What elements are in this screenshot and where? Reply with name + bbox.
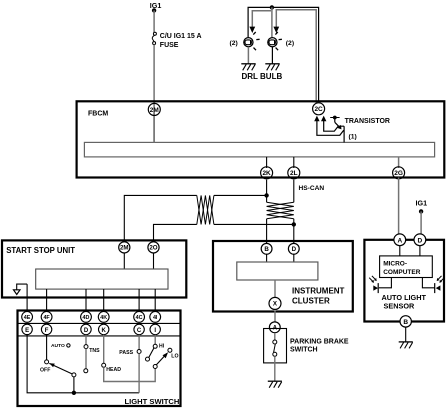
terminal 4F <box>41 312 52 323</box>
svg-text:IG1: IG1 <box>150 1 162 10</box>
ground (parking brake switch) <box>268 381 282 388</box>
contact parking brake lower <box>273 352 277 356</box>
wire unit block to 4C <box>138 289 140 313</box>
svg-text:(2): (2) <box>230 40 238 47</box>
svg-text:LIGHT SWITCH: LIGHT SWITCH <box>125 397 180 406</box>
svg-text:2G: 2G <box>394 170 403 177</box>
svg-text:2C: 2C <box>314 106 323 113</box>
wire bus to 2L <box>293 157 295 168</box>
svg-text:2K: 2K <box>262 170 271 177</box>
contact LO <box>168 348 172 352</box>
transistor (1) inside FBCM <box>314 116 390 141</box>
switch blade HI <box>149 348 154 358</box>
svg-text:HI: HI <box>159 343 165 349</box>
wire 2K down (CAN-H vertical) <box>266 180 268 203</box>
label AUTO + contact <box>51 343 70 349</box>
module START STOP UNIT box <box>2 240 186 297</box>
svg-text:IG1: IG1 <box>416 199 428 208</box>
terminal 2G (FBCM) <box>393 167 405 179</box>
current-flow arrow path to left bulb <box>249 11 271 33</box>
wire 2G to auto light sensor A <box>398 178 400 237</box>
svg-text:2L: 2L <box>290 170 298 177</box>
svg-text:D: D <box>84 328 89 334</box>
twisted pair (vertical, HS-CAN) <box>267 202 294 219</box>
wire pivot to common junction <box>73 377 75 393</box>
svg-text:SENSOR: SENSOR <box>384 302 416 311</box>
wire right bulb to ground <box>271 47 273 64</box>
terminal 2M (start stop unit) <box>119 242 130 253</box>
pin E <box>22 324 32 334</box>
wire B to ground <box>405 327 407 342</box>
wire pin I to HI contact <box>154 335 156 345</box>
ground (auto light sensor) <box>399 342 413 349</box>
wire twist to CAN-H junction <box>214 194 267 196</box>
svg-text:4K: 4K <box>100 315 107 321</box>
switch blade OFF to pivot with arrowhead <box>49 363 72 374</box>
contact TNS lower <box>84 369 88 373</box>
internal block of start stop unit <box>36 269 168 289</box>
svg-text:HS-CAN: HS-CAN <box>299 185 325 192</box>
wire IG1 to auto light sensor D <box>420 211 422 236</box>
pin F <box>41 324 51 334</box>
svg-text:FUSE: FUSE <box>160 42 179 49</box>
internal block of instrument cluster <box>237 262 318 280</box>
wire 2M internal to bus <box>153 112 155 142</box>
contact parking brake upper <box>273 340 277 344</box>
wire pin K to HEAD contact <box>103 335 105 364</box>
wire A to upper contact <box>274 333 276 340</box>
terminal 4I <box>150 312 161 323</box>
module INSTRUMENT CLUSTER box <box>213 241 353 312</box>
contact TNS upper <box>84 345 88 349</box>
terminal 4K <box>98 312 109 323</box>
wire unit block to 4K <box>103 289 105 313</box>
terminal 2C (FBCM) <box>313 103 325 115</box>
pin I <box>150 324 160 334</box>
wire DRL bulb feed (from 2C up and across) <box>248 7 319 102</box>
svg-text:LO: LO <box>171 354 178 360</box>
wire bus to 2G <box>398 157 400 168</box>
wire junction to right DRL bulb <box>271 7 273 37</box>
wire ground branch to terminal 4E <box>26 284 28 313</box>
svg-text:OFF: OFF <box>40 368 50 374</box>
svg-text:TRANSISTOR: TRANSISTOR <box>345 118 390 125</box>
svg-text:PASS: PASS <box>119 350 133 356</box>
svg-text:AUTO: AUTO <box>51 343 65 349</box>
wire pin C to PASS contact <box>138 335 140 350</box>
wire CAN-H from start stop unit 2M <box>124 195 197 240</box>
wire unit block to 4I <box>154 289 156 313</box>
svg-text:DRL BULB: DRL BULB <box>242 72 283 81</box>
connector row line 2 <box>18 335 181 337</box>
svg-text:TNS: TNS <box>89 348 100 354</box>
wire left bulb to ground <box>247 47 249 64</box>
wire pin F to OFF contact <box>46 335 48 360</box>
svg-text:2O: 2O <box>149 245 157 252</box>
current-flow arrow path from 2C to right bulb <box>273 10 316 103</box>
terminal 2M (FBCM) <box>148 103 160 115</box>
wire 2O internal to unit block <box>153 253 155 269</box>
svg-text:PARKING BRAKE: PARKING BRAKE <box>290 338 349 345</box>
wire bus to 2K <box>266 157 268 168</box>
contact pivot (light switch main) <box>72 373 76 377</box>
node junction CAN-H <box>264 193 268 197</box>
wire B internal <box>266 254 268 262</box>
wire CAN-L to instrument cluster D <box>293 219 295 255</box>
svg-text:D: D <box>418 237 423 244</box>
svg-text:D: D <box>292 246 297 253</box>
terminal 4C <box>134 312 145 323</box>
twisted pair (horizontal, HS-CAN) <box>197 195 214 224</box>
contact HI <box>153 344 157 348</box>
module AUTO LIGHT SENSOR box <box>364 240 444 322</box>
connector row line 1 <box>18 322 181 324</box>
ground (right DRL bulb) <box>265 64 279 71</box>
node IG1 (top left) <box>150 1 162 13</box>
terminal 4E <box>22 312 33 323</box>
wire cluster block to X <box>274 280 276 299</box>
svg-text:B: B <box>264 246 269 253</box>
wire lower contact to ground <box>274 356 276 381</box>
wire CAN-H to instrument cluster B <box>266 219 268 255</box>
contact HI/LO pivot <box>153 365 157 369</box>
svg-text:4E: 4E <box>24 315 31 321</box>
wire twist to CAN-L junction <box>214 223 294 225</box>
pin C <box>134 324 144 334</box>
photodiode left <box>369 276 378 293</box>
svg-text:(2): (2) <box>286 40 294 47</box>
contact OFF <box>45 360 49 364</box>
svg-text:4F: 4F <box>43 315 50 321</box>
contact HEAD <box>102 363 106 367</box>
svg-text:A: A <box>397 237 402 244</box>
terminal 2K (FBCM) <box>261 167 273 179</box>
terminal B (instrument cluster) <box>261 243 272 254</box>
terminal B (auto light sensor) <box>400 316 411 327</box>
svg-text:C: C <box>137 328 142 334</box>
wire CAN-L from start stop unit 2O <box>154 224 197 240</box>
svg-text:F: F <box>45 328 49 334</box>
svg-text:2M: 2M <box>150 107 159 114</box>
terminal 4D <box>81 312 92 323</box>
pin K <box>99 324 109 334</box>
fuse C/U IG1 15 A <box>152 32 201 49</box>
svg-text:MICRO-: MICRO- <box>383 261 407 268</box>
terminal D (auto light sensor) <box>414 234 426 246</box>
ground arrow (start stop unit internal) <box>14 284 28 294</box>
wire A to micro-computer <box>399 246 401 256</box>
svg-text:B: B <box>403 319 408 326</box>
switch PARKING BRAKE box <box>264 329 349 363</box>
svg-text:4C: 4C <box>136 315 143 321</box>
switch blade pivot to LO with arrowhead <box>156 352 168 365</box>
node junction on DRL feed <box>270 5 274 9</box>
block MICRO-COMPUTER <box>380 256 433 278</box>
switch blade parking brake <box>274 344 276 352</box>
wire unit block to 4F <box>46 289 48 313</box>
wire common junction to PASS branch <box>74 392 139 394</box>
svg-text:START STOP UNIT: START STOP UNIT <box>6 246 75 255</box>
wire micro-computer to right photodiode <box>422 278 434 288</box>
lamp DRL BULB right (2) <box>268 32 294 50</box>
wire transistor to bus <box>343 126 345 142</box>
svg-text:4I: 4I <box>153 315 158 321</box>
pin D <box>81 324 91 334</box>
wire X to parking brake switch A <box>274 311 276 323</box>
ground (left DRL bulb) <box>241 64 255 71</box>
module LIGHT SWITCH box <box>18 311 181 407</box>
node IG1 (right) <box>416 199 428 214</box>
contact HI blade end <box>146 357 150 361</box>
wire micro-computer to left photodiode <box>379 278 392 288</box>
photodiode right <box>435 276 445 293</box>
svg-text:INSTRUMENT: INSTRUMENT <box>292 287 345 296</box>
svg-text:2M: 2M <box>120 245 129 252</box>
bus bar inside FBCM <box>84 142 434 157</box>
wire unit block to 4D <box>85 289 87 313</box>
svg-text:C/U IG1 15 A: C/U IG1 15 A <box>160 33 202 40</box>
wire D internal <box>293 254 295 262</box>
wire TNS contact pair <box>85 349 87 369</box>
wire IG1 to fuse <box>153 10 155 32</box>
terminal 2O (start stop unit) <box>148 242 159 253</box>
node common junction <box>72 391 76 395</box>
svg-text:CLUSTER: CLUSTER <box>292 297 330 306</box>
wire pin D to TNS contact <box>85 335 87 345</box>
wire 2L down (CAN-L vertical) <box>293 180 295 203</box>
terminal 2L (FBCM) <box>288 167 300 179</box>
svg-text:K: K <box>102 328 107 334</box>
wire 2M internal to unit block <box>123 253 125 269</box>
contact PASS <box>137 350 141 354</box>
node junction CAN-L <box>292 222 296 226</box>
svg-text:FBCM: FBCM <box>88 111 108 118</box>
wire fuse to FBCM terminal 2M <box>153 45 155 143</box>
svg-text:HEAD: HEAD <box>106 367 121 373</box>
terminal A (parking brake switch) <box>269 322 280 333</box>
module FBCM box <box>77 101 445 177</box>
terminal X (instrument cluster) <box>269 297 281 309</box>
wire pin E to common <box>27 335 72 393</box>
svg-text:(1): (1) <box>349 133 357 140</box>
lamp DRL BULB left (2) <box>230 32 260 50</box>
wire D to micro-computer <box>419 246 421 256</box>
svg-text:COMPUTER: COMPUTER <box>383 269 421 276</box>
svg-text:4D: 4D <box>83 315 90 321</box>
wire HEAD to HI/LO pivot <box>104 367 156 381</box>
wire PASS to common <box>138 354 140 393</box>
svg-text:SWITCH: SWITCH <box>290 347 318 354</box>
svg-text:E: E <box>25 328 29 334</box>
terminal A (auto light sensor) <box>394 234 406 246</box>
terminal D (instrument cluster) <box>288 243 299 254</box>
